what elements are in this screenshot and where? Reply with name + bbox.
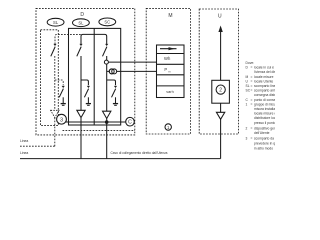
earth symbol E2 [86, 103, 91, 105]
svg-text:3: 3 [246, 137, 248, 141]
busbar (solid segment branch 2 to branch 3) [81, 34, 107, 44]
wire to meter row P [107, 70, 157, 72]
reserve cell (dashed box, branch 1) [41, 30, 59, 126]
arrow to utenza (up) [220, 32, 222, 80]
wire branch 3 [106, 56, 108, 111]
svg-text:dell'Utente: dell'Utente [254, 131, 270, 135]
assembly enclosure dashed bottom [63, 130, 136, 132]
svg-text:distributore locale: distributore locale [254, 116, 275, 120]
node C (circled, punto di consegna) [126, 117, 135, 126]
compartment label SC (oval, branch 3) [99, 18, 116, 26]
CT coupling circles [109, 69, 114, 74]
junction dot [105, 120, 109, 124]
meter (gruppo di misura) [157, 45, 185, 98]
svg-text:P: P [164, 67, 167, 72]
node 2 (circled) [216, 85, 225, 94]
svg-text:prevedere in quanto: prevedere in quanto [254, 142, 275, 146]
svg-text:SC: SC [104, 20, 110, 25]
svg-text:locale misure del: locale misure del [254, 112, 275, 116]
wire from node 3 to node C [66, 121, 126, 123]
svg-text:=: = [251, 127, 253, 131]
earthing switch E1 (branch 1, dashed stub) [55, 80, 63, 85]
cable termination triangle branch 1 (dashed) [51, 110, 59, 117]
dashed feeder line [20, 145, 55, 147]
svg-text:Wh: Wh [164, 56, 171, 61]
svg-text:=: = [251, 89, 253, 93]
svg-text:=: = [251, 102, 253, 106]
enclosure D (dashed room boundary) [36, 8, 135, 134]
node 1 (circled, gruppo di misura) [165, 124, 171, 130]
svg-text:Linea: Linea [20, 151, 28, 155]
riser branch 3 / consegna [106, 122, 108, 159]
svg-text:Linea: Linea [20, 139, 28, 143]
enclosure U (dashed room boundary) [199, 9, 238, 134]
earthing switch E3 (branch 3) [107, 80, 116, 85]
svg-text:C: C [128, 120, 132, 126]
riser branch 2 [80, 118, 82, 159]
disconnector switch Q1 (branch 1) [53, 44, 56, 46]
wire branch 1 (dashed) [54, 56, 56, 110]
short wire triangle3 apex to junction [106, 119, 108, 123]
meter energy-flow arrow [160, 48, 177, 50]
svg-text:SL: SL [53, 20, 59, 25]
earth symbol E1 [61, 103, 66, 105]
svg-text:2: 2 [219, 88, 222, 94]
svg-text:locale in cui è installata: locale in cui è installata [254, 66, 275, 70]
svg-text:locale misure: locale misure [254, 75, 274, 79]
cable termination triangle branch 3 [103, 111, 111, 118]
svg-text:Dove:: Dove: [246, 61, 255, 65]
svg-text:locale Utente: locale Utente [254, 79, 273, 83]
svg-text:scomparto arrivo e: scomparto arrivo e [254, 89, 275, 93]
busbar (dashed segment to branch 1) [55, 34, 81, 44]
svg-text:U: U [218, 13, 222, 19]
svg-text:varh: varh [166, 89, 174, 94]
enclosure M (dashed room boundary) [146, 8, 190, 134]
legend text block [246, 61, 289, 151]
svg-text:Cavo di collegamento diretto d: Cavo di collegamento diretto dall'Utenza [111, 151, 168, 155]
riser utente cable [220, 119, 222, 158]
VT tap circle on branch 3 [104, 60, 108, 64]
svg-text:=: = [251, 98, 253, 102]
device 2 (dispositivo generale dell'Utente) [212, 80, 230, 103]
svg-text:M: M [246, 75, 249, 79]
svg-text:l'utenza del distributore: l'utenza del distributore [254, 70, 275, 74]
svg-text:consegna distributore: consegna distributore [254, 93, 275, 97]
svg-text:punto di consegna: punto di consegna [254, 98, 275, 102]
svg-text:SL: SL [246, 84, 250, 88]
svg-text:M: M [168, 13, 172, 19]
svg-text:gruppo di misura: gruppo di misura [254, 102, 275, 106]
svg-text:=: = [251, 79, 253, 83]
cable termination triangle branch 2 [77, 110, 85, 117]
svg-text:2: 2 [246, 127, 248, 131]
svg-text:=: = [251, 66, 253, 70]
svg-text:=: = [251, 84, 253, 88]
switchgear cubicle (solid box, compartments SL2+SC) [69, 28, 121, 125]
svg-text:=: = [251, 137, 253, 141]
svg-text:=: = [251, 75, 253, 79]
earthing switch E2 (branch 2) [81, 80, 88, 85]
svg-text:3: 3 [60, 117, 63, 123]
svg-text:1: 1 [246, 102, 248, 106]
svg-text:scomparto linea: scomparto linea [254, 84, 275, 88]
wire device 2 to termination [220, 103, 222, 112]
svg-text:SL: SL [78, 20, 84, 25]
svg-text:misura installato nel: misura installato nel [254, 107, 275, 111]
earth symbol E3 [113, 103, 118, 105]
disconnector switch Q2 (branch 2) [79, 44, 82, 46]
svg-text:in altro modo: in altro modo [254, 147, 273, 151]
node 3 (circled) [57, 114, 67, 124]
wire branch 2 [80, 56, 82, 110]
dashed feeder riser [54, 118, 56, 147]
cubicle internal divider [93, 28, 95, 125]
svg-text:presso il punto: presso il punto [254, 121, 275, 125]
wire to meter row Wh [108, 61, 156, 63]
solid feeder line [20, 158, 221, 160]
svg-text:scomparto da non: scomparto da non [254, 137, 275, 141]
compartment label SL (oval, branch 2) [73, 19, 90, 27]
svg-text:D: D [80, 12, 84, 18]
svg-text:dispositivo generale: dispositivo generale [254, 127, 275, 131]
cable termination triangle (utente) [216, 112, 224, 119]
disconnector switch Q3 (branch 3) [105, 44, 108, 46]
compartment label SL (oval, branch 1) [47, 18, 64, 26]
